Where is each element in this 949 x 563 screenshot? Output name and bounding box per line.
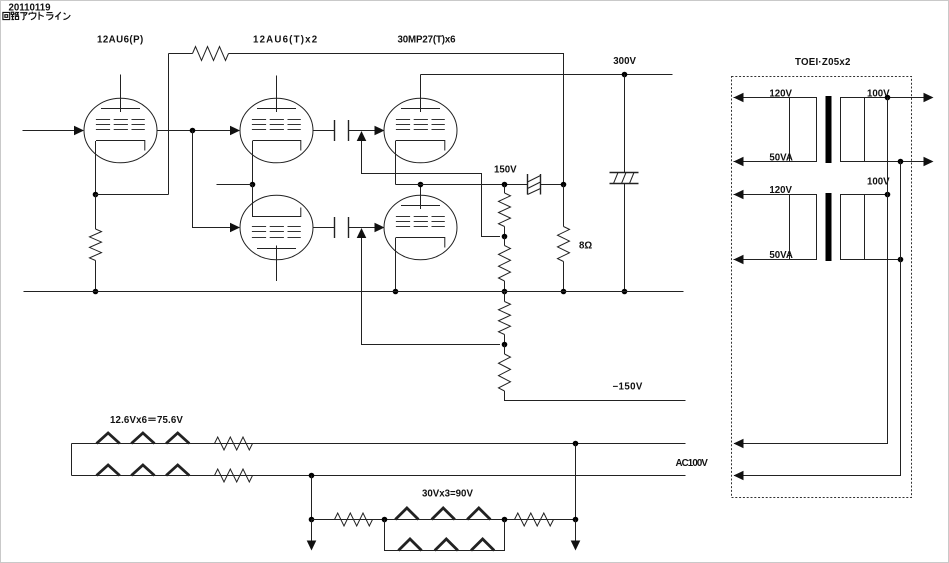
transformer T1 secondary bottom lead (888, 161, 925, 163)
tube V1 12AU6(P) envelope (84, 98, 157, 163)
resistor R7 8 ohm (558, 227, 570, 262)
heater H1 string (bold) (97, 433, 190, 444)
svg-text:50VA: 50VA (769, 250, 793, 261)
choke L1 (hatched) (528, 174, 541, 195)
grid return arrow upper (up) (357, 131, 367, 141)
wire feedback riser (168, 54, 170, 195)
svg-text:12AU6(P): 12AU6(P) (97, 35, 144, 46)
tube V5 30MP27 lower cathode (396, 238, 445, 248)
wire AC line 1 (72, 443, 686, 445)
wire AC1 drop (575, 444, 577, 520)
node R1 ground junction (93, 289, 99, 295)
svg-text:8Ω: 8Ω (579, 241, 592, 252)
node 8ohm ground (561, 289, 567, 295)
resistor R2 feedback resistor (193, 47, 229, 61)
svg-text:12.6Vx6＝75.6V: 12.6Vx6＝75.6V (110, 415, 183, 426)
wire choke L1 to node (541, 184, 564, 186)
node 30V line right (573, 517, 579, 523)
wire lower grid return (362, 238, 501, 345)
resistor R4 (504, 237, 506, 246)
input arrow into V5 (375, 223, 385, 233)
node V5 plate junction (418, 182, 424, 188)
tube V4 30MP27 upper cathode (396, 141, 445, 151)
node transformer T2 secondary top (885, 192, 891, 198)
wire C2 to V5 grid (349, 227, 381, 229)
node transformer T1 secondary bottom tap (898, 159, 904, 165)
transformer T1 primary top lead (734, 97, 790, 99)
tube V4 30MP27 upper plate (401, 108, 440, 110)
tube V1 12AU6(P) plate (101, 108, 140, 110)
arrow bus B into AC (734, 471, 744, 481)
svg-text:−150V: −150V (613, 382, 643, 393)
svg-text:12AU6(T)x2: 12AU6(T)x2 (253, 35, 318, 46)
node choke ground (622, 289, 628, 295)
wire V2 cathode lead (252, 141, 254, 185)
wire cathode to feedback riser (96, 194, 169, 196)
resistor R10 (335, 513, 373, 526)
node AC2 tap (309, 473, 315, 479)
wire V4 cathode lead down (395, 141, 397, 185)
transformer T2 core (826, 193, 832, 261)
wire V5 plate lead up (420, 185, 422, 210)
input arrow into V2 (230, 126, 240, 136)
input arrow into V1 (74, 126, 84, 136)
svg-text:20110119: 20110119 (9, 3, 52, 14)
wire 30V line (312, 519, 576, 521)
resistor R11 (515, 513, 554, 526)
wire R1 to ground rail (95, 261, 97, 292)
grid return arrow lower (up) (357, 228, 367, 238)
tube V2 12AU6(T) upper plate (257, 108, 296, 110)
tube V5 30MP27 lower envelope (384, 195, 457, 260)
wire V1 plate stub (120, 75, 122, 113)
resistor R5 (504, 292, 506, 302)
transformer T2 secondary winding (841, 195, 888, 260)
node divider mid2 (V5 grid bias) (502, 342, 508, 348)
transformer enclosure (dashed) (732, 77, 912, 498)
heater H3 string (bold) (395, 508, 490, 520)
transformer T2 secondary bottom extension (888, 259, 901, 261)
wire node to 8ohm (563, 185, 565, 227)
tube V5 30MP27 lower plate (401, 205, 440, 207)
tube V2 12AU6(T) upper envelope (240, 98, 313, 163)
svg-text:150V: 150V (494, 165, 517, 176)
svg-text:120V: 120V (769, 89, 792, 100)
wire upper grid return (362, 141, 501, 237)
transformer T2 primary bottom lead (734, 259, 790, 261)
svg-text:120V: 120V (769, 185, 792, 196)
wire 30V loop verticals (385, 520, 505, 551)
node 30V line left (309, 517, 315, 523)
heater H2 string (bold) (97, 465, 190, 476)
wire top feedback line right (229, 54, 564, 185)
tube V1 12AU6(P) cathode (96, 141, 145, 151)
wire to -150V line (505, 391, 686, 401)
wire V3 output to C2 (313, 227, 335, 229)
wire V2 plate stub (276, 76, 278, 113)
wire 300V rail (421, 74, 673, 76)
svg-text:AC100V: AC100V (676, 458, 709, 469)
node divider ground (502, 289, 508, 295)
wire V3 plate stub (276, 246, 278, 282)
arrow bus A into AC (734, 439, 744, 449)
input arrow into V3 (230, 223, 240, 233)
input arrow into V4 (375, 126, 385, 136)
transformer T1 secondary top lead (888, 97, 925, 99)
transformer T2 primary top lead (734, 194, 790, 196)
transformer T1 secondary winding (841, 98, 888, 162)
tube V3 12AU6(T) lower inverted plate (257, 248, 296, 250)
wire AC2 drop to 30V line (311, 476, 313, 520)
svg-text:50VA: 50VA (769, 153, 793, 164)
tube V2 12AU6(T) upper grid (252, 120, 301, 130)
transformer T1 primary bottom lead (734, 161, 790, 163)
wire ground rail (24, 291, 684, 293)
tube V3 12AU6(T) lower inverted envelope (240, 195, 313, 260)
wire top feedback line left (169, 53, 193, 55)
node divider mid1 (V4 grid bias) (502, 234, 508, 240)
transformer T1 primary winding (790, 98, 817, 162)
wire divider top lead (504, 185, 506, 194)
svg-text:300V: 300V (613, 56, 636, 67)
node cathode tie junction (250, 182, 256, 188)
transformer T2 primary winding (790, 195, 817, 260)
wire heater loop left bracket (71, 444, 73, 476)
node 30V loop right (502, 517, 508, 523)
node AC1 tap (573, 441, 579, 447)
svg-text:100V: 100V (867, 177, 890, 188)
heater H4 string (bold, loop) (398, 539, 494, 551)
node 150V divider top (502, 182, 508, 188)
tube V3 12AU6(T) lower inverted grid (252, 227, 301, 238)
wire V3 cathode lead (252, 185, 254, 218)
wire secondary bus A (734, 98, 888, 444)
wire 300V down to choke L2 (624, 75, 626, 173)
transformer T1 core (826, 96, 832, 163)
wire C1 to V4 grid (349, 130, 381, 132)
svg-text:30Vx3=90V: 30Vx3=90V (422, 489, 473, 500)
resistor R1 cathode resistor (90, 229, 102, 261)
wire V4 plate to 300V rail (420, 75, 422, 113)
wire split to lower stage (193, 131, 235, 228)
node transformer T2 secondary bottom tap (898, 257, 904, 263)
wire stub to ground arrow left (311, 520, 313, 550)
wire V1 cathode to resistor (95, 195, 97, 230)
arrow down left (307, 541, 317, 551)
choke L2 (hatched) (610, 173, 639, 184)
wire input line (23, 130, 76, 132)
capacitor C1 coupling upper (335, 120, 349, 141)
wire 150V line (396, 184, 528, 186)
tube V2 12AU6(T) upper cathode (253, 141, 301, 151)
node 300V tap (622, 72, 628, 78)
resistor R3 (499, 193, 511, 227)
title kairo outline (kanji paths) (3, 12, 70, 20)
capacitor C2 coupling lower (335, 217, 349, 238)
node transformer T1 secondary top (885, 95, 891, 101)
arrow down right (571, 541, 581, 551)
node signal split junction (190, 128, 196, 134)
tube V4 30MP27 upper grid (396, 120, 445, 130)
node V5 cathode ground junction (393, 289, 399, 295)
resistor R8 dropper 1 (215, 437, 253, 450)
node output node (561, 182, 567, 188)
wire grid stub (217, 184, 253, 186)
node V1 cathode junction (93, 192, 99, 198)
wire V5 cathode to ground (395, 238, 397, 292)
wire V1 cathode lead (95, 141, 97, 195)
wire V1 output line (157, 130, 235, 132)
wire AC line 2 (72, 475, 686, 477)
svg-text:30MP27(T)x6: 30MP27(T)x6 (398, 35, 457, 46)
wire stub to ground arrow right (575, 520, 577, 550)
tube V1 12AU6(P) grid (96, 120, 145, 130)
node 30V loop left (382, 517, 388, 523)
tube V3 12AU6(T) lower inverted cathode (253, 208, 301, 217)
wire V2 output to C1 (313, 130, 335, 132)
wire choke L2 to ground (624, 184, 626, 292)
resistor R6 (504, 345, 506, 355)
svg-text:TOEI·Z05x2: TOEI·Z05x2 (795, 57, 851, 68)
tube V4 30MP27 upper envelope (384, 98, 457, 163)
wire secondary bus B (734, 162, 901, 476)
resistor R9 dropper 2 (215, 469, 253, 482)
tube V5 30MP27 lower grid (396, 217, 445, 227)
